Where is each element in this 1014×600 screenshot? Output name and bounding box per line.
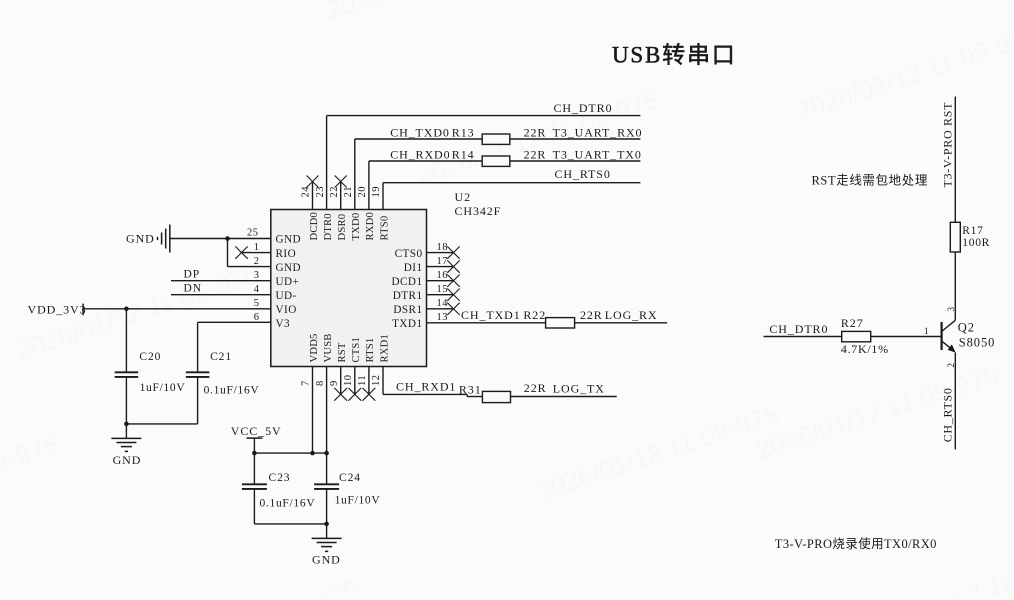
svg-text:12: 12 (371, 375, 382, 387)
resistor R13 (482, 134, 510, 144)
svg-text:2026/01/12 11 09-975: 2026/01/12 11 09-975 (323, 0, 572, 26)
svg-text:11: 11 (357, 375, 368, 386)
svg-text:GND: GND (113, 453, 142, 467)
svg-text:16: 16 (437, 270, 449, 281)
svg-text:9: 9 (329, 380, 340, 386)
svg-text:R13: R13 (452, 125, 475, 139)
U2 pin 1 stub + no-connect X (242, 252, 271, 254)
node T3-V-PRO RST vertical wire (954, 97, 956, 223)
U2 pin 10 stub + no-connect X (354, 367, 356, 395)
svg-text:R27: R27 (841, 316, 864, 330)
transistor Q2 S8050 (942, 320, 956, 352)
svg-text:CH342F: CH342F (455, 204, 502, 218)
wire pin 7 VDD5 down to 5V rail (312, 367, 314, 454)
wire GND to pin 25 (170, 238, 271, 240)
resistor R22 (546, 318, 575, 328)
svg-text:T3-V-PRO RST: T3-V-PRO RST (941, 102, 955, 188)
junction VCC rail at C23 (252, 451, 257, 456)
U2 pin 16 stub + no-connect X (427, 280, 454, 282)
svg-text:CH_DTR0: CH_DTR0 (554, 101, 613, 115)
svg-text:V3: V3 (276, 318, 291, 330)
svg-text:C23: C23 (269, 472, 291, 484)
svg-text:2026/01/12 11 09-975: 2026/01/12 11 09-975 (0, 429, 62, 536)
svg-text:1uF/10V: 1uF/10V (335, 495, 381, 507)
wire CH_TXD1 from pin 13 (427, 322, 546, 324)
svg-text:19: 19 (371, 186, 382, 198)
svg-text:GND: GND (312, 552, 341, 566)
wire C20/C21 bottom rail (126, 423, 197, 425)
wire C23/C24 bottom rail (254, 523, 326, 525)
svg-text:8: 8 (315, 380, 326, 386)
svg-text:22R: 22R (524, 381, 547, 395)
ground symbol below C24 (326, 524, 328, 539)
capacitor C24 (326, 453, 328, 484)
svg-text:CH_RXD0: CH_RXD0 (390, 147, 450, 161)
svg-text:VIO: VIO (276, 304, 297, 316)
svg-text:6: 6 (254, 312, 260, 323)
resistor R27 (842, 331, 871, 341)
junction VCC rail at pin 8 (324, 451, 329, 456)
svg-text:14: 14 (437, 298, 449, 309)
junction on GND wire (225, 236, 230, 241)
svg-text:22R: 22R (524, 147, 547, 161)
wire CH_RTS0 from pin 19 (382, 183, 384, 210)
resistor R17 (950, 222, 960, 252)
svg-text:13: 13 (437, 312, 449, 323)
svg-text:DSR0: DSR0 (337, 214, 348, 241)
junction C20 bottom (124, 422, 129, 427)
svg-text:7: 7 (301, 380, 312, 386)
svg-text:DN: DN (184, 282, 202, 294)
svg-text:100R: 100R (962, 237, 990, 249)
svg-text:RST走线需包地处理: RST走线需包地处理 (812, 173, 928, 187)
svg-text:10: 10 (343, 375, 354, 387)
svg-text:20: 20 (357, 186, 368, 198)
power VDD_3V3 bar (82, 304, 84, 316)
svg-text:2026/01/12 11 09-975: 2026/01/12 11 09-975 (113, 574, 362, 595)
svg-text:RXD0: RXD0 (365, 212, 376, 240)
svg-text:1: 1 (254, 242, 260, 253)
svg-text:4: 4 (254, 284, 260, 295)
svg-text:RIO: RIO (276, 248, 297, 260)
svg-text:3: 3 (254, 270, 260, 281)
svg-text:4.7K/1%: 4.7K/1% (841, 342, 889, 356)
wire R31 to LOG_TX (511, 396, 617, 398)
svg-text:DI1: DI1 (404, 262, 423, 274)
U2 pin 18 stub + no-connect X (427, 252, 454, 254)
power VCC_5V bar symbol (247, 437, 263, 439)
wire CH_DTR0 from pin 23 (326, 116, 328, 210)
svg-text:UD+: UD+ (276, 276, 300, 288)
svg-text:Q2: Q2 (958, 321, 975, 335)
svg-text:23: 23 (315, 186, 326, 198)
wire CH_DTR0 to R27 (764, 336, 842, 338)
U2 pin 22 stub + no-connect X (340, 182, 342, 210)
capacitor C23 (253, 453, 255, 484)
svg-text:VCC_5V: VCC_5V (231, 424, 282, 438)
ground symbol (left, sideways earth) (158, 225, 170, 253)
wire pin 8 VUSB down to 5V rail (326, 367, 328, 454)
svg-text:22: 22 (329, 186, 340, 198)
wire VCC_5V rail (254, 452, 326, 454)
svg-text:22R: 22R (580, 308, 603, 322)
svg-text:VUSB: VUSB (323, 333, 334, 362)
capacitor C21 (197, 322, 199, 372)
svg-text:TXD1: TXD1 (392, 318, 422, 330)
wire VDD_3V3 to pin 5 VIO (83, 308, 271, 310)
svg-text:2026/01/12 11 09-975: 2026/01/12 11 09-975 (793, 19, 1014, 126)
svg-text:CH_RXD1: CH_RXD1 (396, 379, 456, 393)
svg-text:RST: RST (337, 342, 348, 362)
svg-text:CTS0: CTS0 (395, 248, 423, 260)
svg-text:TXD0: TXD0 (351, 213, 362, 241)
svg-text:DSR1: DSR1 (393, 304, 422, 316)
svg-text:USB转串口: USB转串口 (612, 43, 737, 68)
wire R13 to T3_UART_RX0 (510, 138, 641, 140)
svg-text:UD-: UD- (276, 290, 297, 302)
svg-text:CH_TXD1: CH_TXD1 (461, 308, 521, 322)
svg-text:0.1uF/16V: 0.1uF/16V (204, 385, 260, 397)
svg-text:C20: C20 (139, 351, 161, 363)
svg-text:CH_DTR0: CH_DTR0 (769, 322, 828, 336)
svg-text:25: 25 (247, 228, 259, 239)
svg-text:GND: GND (276, 234, 302, 246)
svg-text:CH_RTS0: CH_RTS0 (555, 167, 611, 181)
svg-text:DCD1: DCD1 (391, 276, 422, 288)
svg-text:DCD0: DCD0 (309, 212, 320, 240)
U2 pin 9 stub + no-connect X (340, 367, 342, 395)
svg-text:RXD1: RXD1 (379, 334, 390, 362)
svg-text:22R: 22R (524, 125, 547, 139)
wire R27 to Q2 base (871, 336, 942, 338)
svg-text:C21: C21 (210, 351, 232, 363)
svg-text:U2: U2 (455, 190, 471, 204)
svg-text:T3_UART_TX0: T3_UART_TX0 (553, 147, 642, 161)
svg-text:0.1uF/16V: 0.1uF/16V (260, 497, 316, 509)
node DN wire to pin 4 (171, 294, 271, 296)
wire CH_TXD0 from pin 21 (354, 139, 356, 210)
svg-text:15: 15 (437, 284, 449, 295)
svg-text:LOG_TX: LOG_TX (553, 381, 605, 395)
svg-text:R17: R17 (962, 225, 983, 237)
capacitor C20 (125, 309, 127, 373)
U2 pin 15 stub + no-connect X (427, 294, 454, 296)
svg-text:C24: C24 (339, 472, 361, 484)
svg-text:5: 5 (254, 298, 260, 309)
svg-text:T3-V-PRO烧录使用TX0/RX0: T3-V-PRO烧录使用TX0/RX0 (775, 536, 937, 551)
svg-text:VDD_3V3: VDD_3V3 (28, 302, 87, 316)
svg-text:VDD5: VDD5 (309, 333, 320, 362)
svg-text:DTR0: DTR0 (323, 213, 334, 240)
svg-text:2: 2 (946, 363, 956, 368)
svg-text:R31: R31 (459, 382, 482, 396)
wire R22 to LOG_RX (575, 322, 668, 324)
svg-text:3: 3 (946, 307, 956, 312)
U2 pin 17 stub + no-connect X (427, 266, 454, 268)
svg-text:CTS1: CTS1 (351, 337, 362, 363)
svg-text:GND: GND (126, 232, 155, 246)
wire CH_RXD1 from pin 12 (382, 367, 384, 395)
junction VDD_3V3 / C20 (124, 307, 129, 312)
svg-text:1uF/10V: 1uF/10V (140, 382, 186, 394)
svg-text:RTS1: RTS1 (365, 338, 376, 363)
svg-text:2026/01/12 11 09-975: 2026/01/12 11 09-975 (533, 399, 782, 506)
junction C24 bottom (324, 522, 329, 527)
op-amp U2 CH342F body (271, 210, 427, 367)
node DP wire to pin 3 (171, 280, 271, 282)
svg-text:24: 24 (301, 186, 312, 198)
svg-text:S8050: S8050 (959, 335, 995, 349)
wire Q2 emitter to CH_RTS0 (954, 353, 956, 450)
svg-text:GND: GND (276, 262, 302, 274)
svg-text:DTR1: DTR1 (393, 290, 423, 302)
svg-text:1: 1 (924, 327, 929, 337)
svg-text:17: 17 (437, 256, 449, 267)
svg-text:LOG_RX: LOG_RX (605, 308, 658, 322)
svg-text:R14: R14 (452, 147, 475, 161)
resistor R31 (482, 391, 510, 402)
svg-text:DP: DP (184, 268, 201, 280)
U2 pin 11 stub + no-connect X (368, 367, 370, 395)
svg-text:2026/01/12 11 09-975: 2026/01/12 11 09-975 (753, 359, 1002, 466)
svg-text:18: 18 (437, 242, 449, 253)
wire CH_RXD0 from pin 20 (368, 161, 370, 210)
junction VCC rail at pin 7 (310, 451, 315, 456)
resistor R14 (482, 156, 510, 166)
svg-text:R22: R22 (523, 308, 546, 322)
svg-text:RTS0: RTS0 (379, 216, 390, 241)
svg-text:T3_UART_RX0: T3_UART_RX0 (553, 125, 643, 139)
wire C21 to pin 6 V3 (198, 321, 271, 323)
svg-text:CH_TXD0: CH_TXD0 (390, 125, 450, 139)
wire R14 to T3_UART_TX0 (510, 160, 641, 162)
wire R17 to Q2 collector (954, 252, 956, 320)
wire junction down to pin 2 (227, 239, 229, 267)
svg-text:2: 2 (254, 256, 260, 267)
svg-text:21: 21 (343, 186, 354, 198)
svg-text:CH_RTS0: CH_RTS0 (941, 387, 955, 442)
U2 pin 14 stub + no-connect X (427, 308, 454, 310)
U2 pin 24 stub + no-connect X (312, 182, 314, 210)
ground symbol below C20 (125, 424, 127, 439)
